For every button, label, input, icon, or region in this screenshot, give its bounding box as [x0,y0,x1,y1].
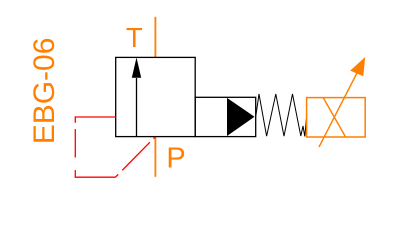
svg-text:P: P [166,143,185,175]
svg-text:T: T [126,22,143,53]
svg-text:EBG-06: EBG-06 [28,38,61,145]
